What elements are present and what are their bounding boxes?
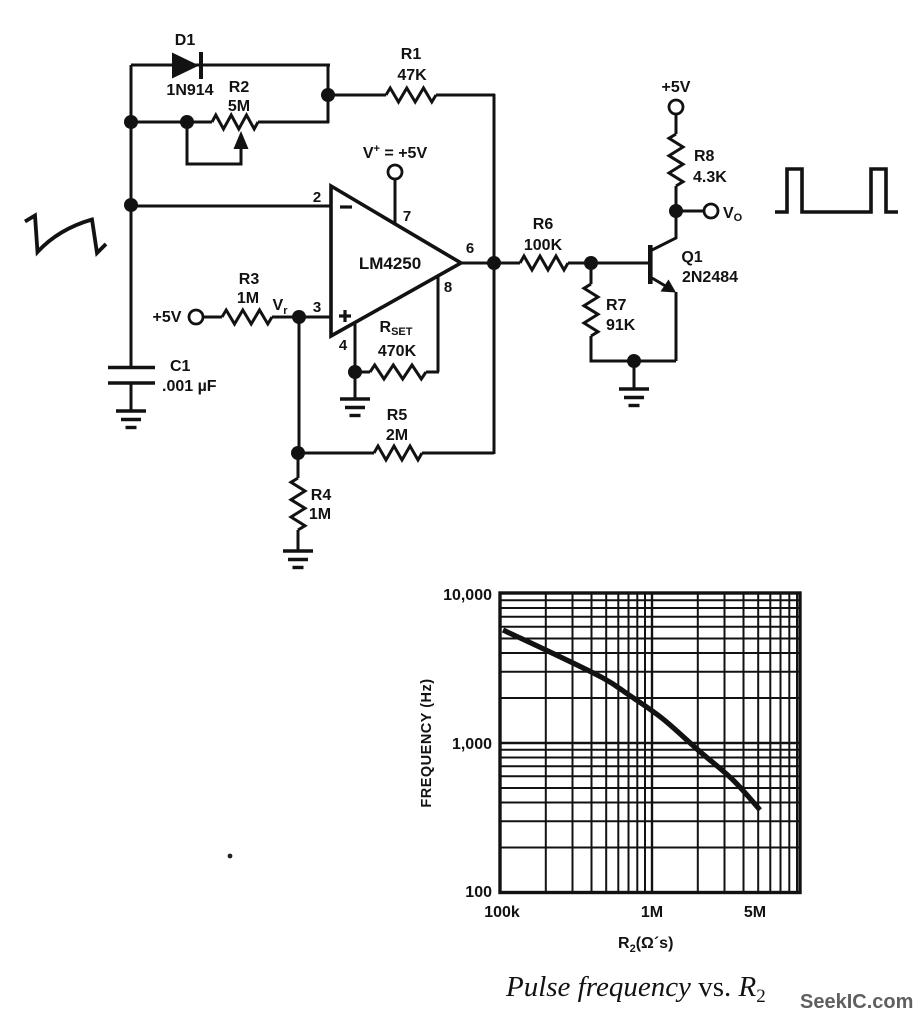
terminal +5V (R8) [669,100,683,114]
label R2 [229,79,250,96]
scan speck [228,854,233,859]
wire Vo tap [676,210,704,213]
svg-text:2: 2 [313,189,321,206]
resistor R7 [584,263,598,336]
graph frame [500,593,800,893]
resistor R2 (pot) [212,115,258,129]
wire output (pin 6) [461,262,494,265]
svg-text:R7: R7 [606,297,627,314]
svg-text:5M: 5M [228,98,250,115]
label V+ = +5V [363,143,428,162]
graph x label 100k [484,904,520,921]
watermark SeekIC.com [800,991,913,1013]
wire top rail (diode row) [131,64,330,67]
label R5 [387,407,408,424]
junction Vi node [292,310,306,324]
pin 4 stem [354,322,357,372]
wire R1 right lead to feedback rail [436,94,495,97]
junction emitter/ground [627,354,641,368]
svg-text:.001 µF: .001 µF [162,378,217,395]
graph curve frequency vs R2 [503,630,760,810]
terminal +5V input [189,310,203,324]
pin 8 label [444,279,452,296]
svg-text:100: 100 [465,884,492,901]
wire inverting input rail (pin 2) [131,205,331,208]
label +5V (R8) [662,79,691,96]
node Vi label [273,297,289,317]
graph y label 1,000 [452,736,492,753]
svg-text:R2: R2 [229,79,250,96]
value 1N914 [166,82,213,99]
terminal Vo [704,204,718,218]
svg-text:SeekIC.com: SeekIC.com [800,991,913,1013]
label R4 [311,487,332,504]
value 1M (R4) [309,506,331,523]
value 47K [397,67,427,84]
pin 8 stem [437,276,440,372]
svg-text:4.3K: 4.3K [693,169,727,186]
svg-text:6: 6 [466,240,474,257]
wire pot wiper: down-right-up [187,122,241,164]
value 4.3K [693,169,727,186]
diode D1 [172,52,201,79]
pin 2 label [313,189,321,206]
svg-text:R5: R5 [387,407,408,424]
capacitor C1 [108,368,155,411]
svg-text:R1: R1 [401,46,422,63]
value 1M (R3) [237,290,259,307]
svg-text:R8: R8 [694,148,715,165]
svg-text:Q1: Q1 [681,249,702,266]
pin 7 label [403,208,411,225]
transistor Q1 emitter [652,278,676,293]
svg-text:LM4250: LM4250 [359,254,421,273]
graph axis title FREQUENCY (Hz) [419,678,435,807]
svg-text:470K: 470K [378,343,417,360]
terminal V+ supply [388,165,402,179]
svg-text:47K: 47K [397,67,427,84]
label R8 [694,148,715,165]
svg-text:FREQUENCY (Hz): FREQUENCY (Hz) [419,678,435,807]
value 100K [524,237,563,254]
svg-text:10,000: 10,000 [443,587,492,604]
wire R1 left lead [328,94,386,97]
svg-text:5M: 5M [744,904,766,921]
ground below Q1 [619,361,649,406]
svg-text:2N2484: 2N2484 [682,269,738,286]
svg-text:1,000: 1,000 [452,736,492,753]
junction pin4/RSET [348,365,362,379]
pin 4 label [339,337,348,354]
resistor R5 [374,446,422,460]
resistor R4 [291,453,305,550]
graph x label 5M [744,904,766,921]
graph gridlines [500,593,800,893]
value 2N2484 [682,269,738,286]
label Vo [723,205,743,224]
wire R6 left lead [494,262,520,265]
svg-text:D1: D1 [175,32,196,49]
svg-text:R6: R6 [533,216,554,233]
graph y label 10,000 [443,587,492,604]
ground below RSET [340,372,370,416]
wire R2 rail left [131,121,212,124]
junction R1 tap [321,88,335,102]
caption Pulse frequency vs. R2 [505,971,766,1007]
svg-text:Pulse frequency vs. R2: Pulse frequency vs. R2 [505,971,766,1007]
transistor Q1 collector [652,211,676,250]
wire emitter vertical [675,292,678,361]
svg-text:1M: 1M [641,904,663,921]
svg-text:R3: R3 [239,271,260,288]
resistor RSET leads [355,371,439,374]
junction output node [487,256,501,270]
value 91K [606,317,636,334]
wire feedback vertical rail [493,94,496,454]
resistor R3 [222,310,272,324]
transistor Q1 base bar [648,245,653,284]
graph x label 1M [641,904,663,921]
pin 7 stem [394,179,397,224]
value .001 uF [162,378,217,395]
label LM4250 [359,254,421,273]
value 2M [386,427,408,444]
svg-text:V+ = +5V: V+ = +5V [363,143,428,162]
label R1 [401,46,422,63]
op-amp U1 triangle [331,186,461,336]
svg-text:+5V: +5V [153,309,182,326]
wire R7 bottom to emitter junction [591,336,676,361]
label D1 [175,32,196,49]
value 5M [228,98,250,115]
ground below R4 [283,551,313,568]
op-amp plus sign [339,310,351,322]
pin 6 label [466,240,474,257]
resistor R8 [669,114,683,211]
wire left vertical rail [130,65,133,368]
graph axis title R2 (ohms) [618,935,673,955]
pin 3 label [313,299,321,316]
pot R2 wiper arrow [234,131,249,149]
wire R6 right lead / base wire [568,262,648,265]
ground below C1 [116,411,146,428]
svg-text:1N914: 1N914 [166,82,213,99]
junction base node [584,256,598,270]
label C1 [170,358,191,375]
resistor R6 [520,256,568,270]
svg-text:100K: 100K [524,237,563,254]
value 470K [378,343,417,360]
svg-text:1M: 1M [309,506,331,523]
label R7 [606,297,627,314]
wire R5 rail left [298,452,374,455]
svg-text:1M: 1M [237,290,259,307]
svg-text:91K: 91K [606,317,636,334]
op-amp minus sign [340,205,352,208]
label R3 [239,271,260,288]
label R6 [533,216,554,233]
label +5V input [153,309,182,326]
junction collector/Vo [669,204,683,218]
junction left/R2 rail [124,115,138,129]
square wave symbol [775,169,898,212]
junction R4/R5 [291,446,305,460]
junction left/pin2 rail [124,198,138,212]
svg-text:100k: 100k [484,904,520,921]
svg-text:7: 7 [403,208,411,225]
svg-text:+5V: +5V [662,79,691,96]
wire non-inverting rail (pin 3) [272,316,331,319]
svg-text:8: 8 [444,279,452,296]
wire right vertical (top rail to R2 rail) [327,65,330,123]
resistor R1 [386,88,436,102]
label Q1 [681,249,702,266]
svg-text:C1: C1 [170,358,191,375]
sawtooth waveform symbol [25,216,106,254]
svg-text:R4: R4 [311,487,332,504]
svg-text:2M: 2M [386,427,408,444]
wire R2 rail right [258,121,329,124]
svg-text:4: 4 [339,337,348,354]
wire Vi vertical to R5 rail [298,317,301,453]
graph y label 100 [465,884,492,901]
resistor R3 leads [203,316,222,319]
wire R5 rail right [422,452,494,455]
label RSET [380,319,413,338]
svg-text:3: 3 [313,299,321,316]
junction pot wiper [180,115,194,129]
resistor RSET [370,365,426,379]
